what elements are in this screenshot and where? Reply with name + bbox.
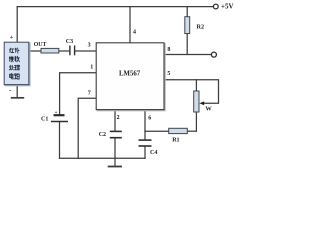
svg-text:W: W <box>205 106 212 113</box>
svg-text:1: 1 <box>90 65 93 71</box>
svg-text:C4: C4 <box>150 150 157 156</box>
svg-text:C2: C2 <box>99 132 106 138</box>
svg-text:3: 3 <box>88 43 91 49</box>
svg-text:C1: C1 <box>41 116 48 122</box>
svg-text:4: 4 <box>133 29 136 35</box>
svg-text:+: + <box>10 34 14 41</box>
svg-text:+: + <box>55 111 58 116</box>
svg-text:7: 7 <box>88 91 91 97</box>
svg-text:2: 2 <box>117 115 120 121</box>
svg-text:OUT: OUT <box>34 42 47 48</box>
svg-text:R2: R2 <box>197 24 205 31</box>
svg-text:LM567: LM567 <box>119 70 141 77</box>
svg-text:6: 6 <box>148 116 151 122</box>
svg-text:+5V: +5V <box>221 2 234 10</box>
svg-text:8: 8 <box>167 47 170 53</box>
svg-text:C3: C3 <box>66 39 73 45</box>
svg-text:5: 5 <box>167 71 170 77</box>
svg-text:R1: R1 <box>172 137 179 143</box>
